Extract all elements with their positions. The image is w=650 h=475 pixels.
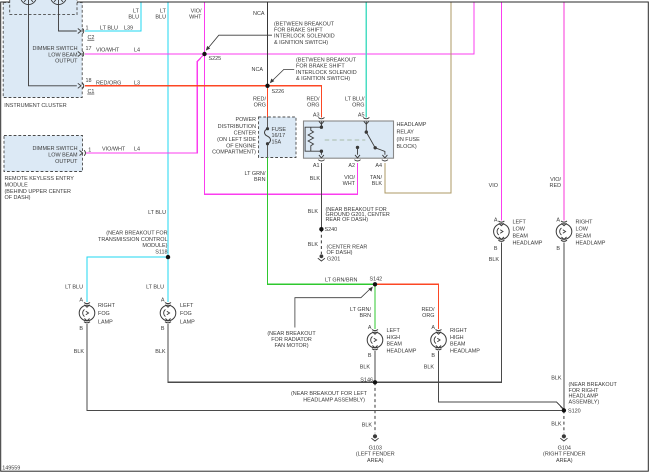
- relay switch A5 to A4: [365, 121, 385, 155]
- svg-text:FOR RADIATOR: FOR RADIATOR: [271, 337, 312, 343]
- svg-text:CENTER: CENTER: [234, 131, 256, 137]
- wire BLK right low beam to S120: [563, 243, 565, 411]
- label RED/ORG at relay A3: [307, 97, 320, 109]
- internal cluster wire from right lamp to pin 1: [59, 5, 77, 32]
- svg-text:L3: L3: [134, 81, 140, 87]
- label BLK below left low beam: [489, 257, 500, 263]
- annotation S146: [291, 391, 368, 403]
- svg-text:B: B: [556, 246, 560, 252]
- svg-text:ORG: ORG: [307, 103, 319, 109]
- svg-text:RED/: RED/: [422, 307, 435, 313]
- label BLK at A1: [310, 176, 321, 182]
- svg-text:VIO/: VIO/: [550, 177, 561, 183]
- svg-text:BLK: BLK: [424, 365, 435, 371]
- svg-text:ORG: ORG: [352, 103, 364, 109]
- svg-text:& IGNITION SWITCH): & IGNITION SWITCH): [274, 40, 328, 46]
- instrument cluster pin 1 and C2: [86, 26, 95, 42]
- svg-text:L39: L39: [124, 26, 133, 32]
- svg-text:HEADLAMP: HEADLAMP: [387, 348, 417, 354]
- label TAN/BLK at A4: [370, 175, 382, 187]
- svg-text:18: 18: [86, 78, 92, 84]
- svg-text:RELAY: RELAY: [397, 130, 415, 136]
- svg-text:BLU: BLU: [155, 15, 166, 21]
- svg-text:HIGH: HIGH: [450, 335, 464, 341]
- svg-text:LT: LT: [133, 9, 140, 15]
- svg-text:LT BLU/: LT BLU/: [345, 97, 365, 103]
- svg-text:BLK: BLK: [155, 349, 166, 355]
- svg-text:A5: A5: [358, 113, 365, 119]
- label VIO/WHT at A2: [343, 175, 356, 187]
- annotation for S226: [296, 57, 357, 82]
- label dimmer switch low beam output (cluster): [32, 46, 78, 65]
- svg-text:BLK: BLK: [360, 365, 371, 371]
- svg-text:FOR BRAKE SHIFT: FOR BRAKE SHIFT: [296, 64, 345, 70]
- svg-text:(ON LEFT SIDE: (ON LEFT SIDE: [217, 137, 256, 143]
- wire BLK right high beam to S120: [439, 351, 564, 410]
- label S226: [272, 89, 285, 95]
- label BLK below right high beam: [424, 365, 435, 371]
- wire NCA (black, top to S226): [267, 3, 269, 86]
- svg-text:OUTPUT: OUTPUT: [55, 159, 78, 165]
- svg-text:HEADLAMP: HEADLAMP: [397, 122, 427, 128]
- junction S146: [373, 380, 377, 384]
- svg-text:LEFT: LEFT: [180, 303, 194, 309]
- instrument cluster box: [3, 3, 82, 98]
- left fog lamp: [160, 303, 176, 323]
- svg-text:(LEFT FENDER: (LEFT FENDER: [356, 452, 395, 458]
- wire VIO/WHT top stub above S225: [204, 3, 206, 55]
- svg-text:REMOTE KEYLESS ENTRY: REMOTE KEYLESS ENTRY: [5, 176, 75, 182]
- svg-text:LEFT: LEFT: [387, 328, 401, 334]
- label S120: [568, 408, 581, 414]
- svg-text:A: A: [368, 325, 372, 331]
- svg-text:A2: A2: [348, 163, 355, 169]
- svg-text:(NEAR BREAKOUT FOR: (NEAR BREAKOUT FOR: [106, 231, 167, 237]
- svg-text:VIO/: VIO/: [191, 9, 202, 15]
- svg-text:S118: S118: [155, 249, 167, 255]
- label RIGHT HIGH BEAM HEADLAMP: [450, 328, 480, 354]
- svg-text:BEAM: BEAM: [387, 342, 403, 348]
- svg-text:LT BLU: LT BLU: [100, 26, 118, 32]
- svg-text:DISTRIBUTION: DISTRIBUTION: [218, 124, 256, 130]
- right high beam headlamp: [431, 330, 447, 350]
- svg-text:TRANSMISSION CONTROL: TRANSMISSION CONTROL: [98, 237, 168, 243]
- svg-text:BLK: BLK: [551, 375, 562, 381]
- headlamp relay U1 box: [304, 121, 394, 158]
- instrument cluster inner lamp box: [10, 0, 77, 15]
- svg-text:149559: 149559: [2, 466, 20, 472]
- right high beam pin B: [431, 353, 435, 359]
- label BLK right low beam: [551, 375, 562, 381]
- label S146: [360, 377, 373, 383]
- svg-text:(NEAR BREAKOUT: (NEAR BREAKOUT: [267, 331, 316, 337]
- svg-text:1: 1: [88, 148, 91, 154]
- svg-text:OUTPUT: OUTPUT: [55, 59, 78, 65]
- svg-text:WHT: WHT: [343, 181, 356, 187]
- label VIO at left low beam: [489, 183, 498, 189]
- svg-text:LOW BEAM: LOW BEAM: [48, 153, 78, 159]
- relay pin A2 arrow and cup: [354, 155, 360, 161]
- svg-text:LAMP: LAMP: [180, 319, 195, 325]
- label RIGHT FOG LAMP: [98, 303, 116, 325]
- svg-text:FOG: FOG: [180, 311, 192, 317]
- svg-text:L4: L4: [134, 147, 140, 153]
- svg-text:B: B: [431, 353, 435, 359]
- wire BLK right fog lamp to S120: [87, 324, 564, 410]
- svg-text:LT GRN/: LT GRN/: [245, 171, 266, 177]
- wire BLK dashed S120 to G104: [563, 410, 565, 433]
- svg-text:A: A: [431, 325, 435, 331]
- right fog pin A: [79, 297, 83, 303]
- svg-text:VIO/WHT: VIO/WHT: [96, 47, 120, 53]
- svg-text:VIO/WHT: VIO/WHT: [102, 147, 126, 153]
- wire VIO/WHT S225 to relay pin A2: [205, 54, 358, 194]
- svg-text:INTERLOCK SOLENOID: INTERLOCK SOLENOID: [274, 34, 335, 40]
- wire BLK ground bus left (fog, S146, low beam): [168, 243, 501, 383]
- svg-text:RED/ORG: RED/ORG: [96, 81, 121, 87]
- svg-text:B: B: [79, 326, 83, 332]
- label BLK above G104: [551, 421, 562, 427]
- svg-text:LT GRN/: LT GRN/: [350, 307, 371, 313]
- label G103 LEFT FENDER AREA: [356, 445, 395, 464]
- label NCA upper: [253, 11, 265, 17]
- svg-text:LOW: LOW: [576, 227, 589, 233]
- remote keyless pin 1: [88, 148, 91, 154]
- left low beam pin B: [494, 246, 498, 252]
- svg-text:15A: 15A: [272, 139, 282, 145]
- svg-text:S120: S120: [568, 408, 581, 414]
- right fog lamp: [79, 303, 95, 323]
- label BLK below left high beam: [360, 365, 371, 371]
- right low beam pin A: [556, 218, 560, 224]
- svg-text:HEADLAMP: HEADLAMP: [450, 348, 480, 354]
- relay coil between A3 and A1: [305, 121, 323, 155]
- label LT GRN/BRN at left high beam: [350, 307, 371, 319]
- wire BLK dashed S146 to G103: [374, 382, 376, 433]
- left high beam pin A: [368, 325, 372, 331]
- svg-text:NCA: NCA: [253, 11, 265, 17]
- label 149559: [2, 466, 20, 472]
- label POWER DISTRIBUTION CENTER: [212, 117, 256, 156]
- leader arrow to S226: [270, 69, 294, 83]
- svg-text:LT: LT: [160, 9, 167, 15]
- svg-text:RED: RED: [550, 183, 562, 189]
- label LT BLU column 1: [128, 9, 139, 21]
- svg-text:LAMP: LAMP: [98, 319, 113, 325]
- label LT BLU at left fog: [146, 285, 164, 291]
- label BLK below left fog: [155, 349, 166, 355]
- relay coil-switch dashed link: [325, 139, 366, 141]
- junction S120: [562, 408, 566, 412]
- wire gray inside fuse box: [267, 117, 269, 158]
- svg-text:BLK: BLK: [362, 422, 373, 428]
- svg-text:S146: S146: [360, 377, 373, 383]
- label RED/ORG below S226: [253, 97, 266, 109]
- svg-text:BLK: BLK: [372, 181, 383, 187]
- svg-text:G103: G103: [369, 445, 382, 451]
- left low beam headlamp: [494, 221, 510, 241]
- label RIGHT LOW BEAM HEADLAMP: [576, 219, 606, 246]
- svg-text:VIO/: VIO/: [344, 175, 355, 181]
- svg-text:(BETWEEN BREAKOUT: (BETWEEN BREAKOUT: [296, 57, 357, 63]
- svg-text:REAR OF DASH): REAR OF DASH): [326, 217, 369, 223]
- svg-text:HEADLAMP: HEADLAMP: [513, 241, 543, 247]
- label INSTRUMENT CLUSTER: [4, 103, 67, 109]
- svg-text:OF ENGINE: OF ENGINE: [226, 143, 256, 149]
- wire RED/ORG L3 (pin 18 to relay A3): [85, 86, 321, 118]
- leader arrow to S142: [295, 287, 373, 328]
- pin label A4: [375, 163, 382, 169]
- label LEFT FOG LAMP: [180, 303, 195, 325]
- svg-text:LOW: LOW: [513, 227, 526, 233]
- ground G103: [371, 434, 378, 441]
- svg-text:G201: G201: [327, 256, 340, 262]
- svg-text:A: A: [161, 297, 165, 303]
- pin label A2: [348, 163, 355, 169]
- right low beam pin B: [556, 246, 560, 252]
- svg-text:(NEAR BREAKOUT FOR LEFT: (NEAR BREAKOUT FOR LEFT: [291, 391, 368, 397]
- svg-text:17: 17: [86, 46, 92, 52]
- left high beam headlamp: [367, 330, 383, 350]
- wire LT BLU/ORG (top to relay A5): [365, 3, 367, 118]
- pin 17 arrow and connector cup: [78, 51, 84, 57]
- svg-text:S142: S142: [370, 276, 383, 282]
- wire TAN/BLK relay A4 to top: [385, 3, 451, 194]
- right fog pin B: [79, 326, 83, 332]
- svg-text:RIGHT: RIGHT: [576, 219, 594, 225]
- relay pin A1 arrow and cup: [318, 155, 324, 161]
- relay pin A3 arrow and cup: [318, 118, 324, 128]
- ground G201: [318, 254, 325, 261]
- svg-text:OF DASH): OF DASH): [327, 250, 353, 256]
- svg-text:LOW BEAM: LOW BEAM: [48, 52, 78, 58]
- label RED/ORG at right high beam: [422, 307, 435, 319]
- svg-text:BLK: BLK: [551, 421, 562, 427]
- junction S118: [166, 255, 170, 259]
- relay pin A5 arrow and cup: [363, 118, 369, 125]
- svg-text:BLOCK): BLOCK): [397, 144, 417, 150]
- svg-text:(BETWEEN BREAKOUT: (BETWEEN BREAKOUT: [274, 21, 335, 27]
- pin 1 arrow and connector cup: [78, 28, 84, 34]
- svg-text:A: A: [79, 297, 83, 303]
- wire VIO/WHT S225 to remote keyless module: [86, 54, 205, 153]
- annotation S118: [98, 231, 168, 256]
- label G104 RIGHT FENDER AREA: [543, 445, 586, 464]
- svg-text:BLK: BLK: [489, 257, 500, 263]
- svg-text:RIGHT: RIGHT: [450, 328, 468, 334]
- svg-text:AREA): AREA): [367, 458, 384, 464]
- svg-text:S226: S226: [272, 89, 285, 95]
- svg-text:S240: S240: [325, 227, 338, 233]
- wire BLK relay A1 to S240: [320, 163, 322, 229]
- relay pin A4 arrow and cup: [382, 155, 388, 161]
- label VIO/RED at right low beam: [550, 177, 562, 189]
- label LT BLU/ORG at relay A5: [345, 97, 365, 109]
- junction S240: [319, 227, 323, 231]
- svg-text:INSTRUMENT CLUSTER: INSTRUMENT CLUSTER: [4, 103, 67, 109]
- left fog pin B: [161, 326, 165, 332]
- indicator lamp left (instrument cluster): [21, 0, 37, 5]
- label LT GRN/BRN horizontal: [325, 277, 358, 283]
- label BLK below right fog: [74, 349, 85, 355]
- leader arrow to S225: [206, 35, 272, 50]
- svg-text:ORG: ORG: [422, 313, 434, 319]
- label HEADLAMP RELAY: [397, 122, 427, 150]
- annotation radiator fan: [267, 331, 316, 349]
- svg-text:FAN MOTOR): FAN MOTOR): [274, 343, 308, 349]
- wire LT GRN/BRN S142 to left high beam: [374, 284, 376, 329]
- wire RED/ORG S226 to fuse box: [267, 86, 269, 117]
- svg-text:A3: A3: [313, 113, 320, 119]
- svg-text:COMPARTMENT): COMPARTMENT): [212, 150, 256, 156]
- svg-text:L4: L4: [134, 47, 140, 53]
- svg-text:BLU: BLU: [128, 15, 139, 21]
- annotation S120: [569, 382, 618, 405]
- svg-text:(BEHIND UPPER CENTER: (BEHIND UPPER CENTER: [5, 189, 72, 195]
- svg-text:BRN: BRN: [254, 177, 266, 183]
- svg-text:WHT: WHT: [189, 15, 202, 21]
- ground G104: [560, 434, 567, 441]
- remote keyless entry module box: [4, 136, 83, 172]
- svg-text:FOG: FOG: [98, 311, 110, 317]
- annotation near S240: [326, 207, 390, 223]
- svg-text:BEAM: BEAM: [513, 234, 529, 240]
- instrument cluster pin 17: [86, 46, 92, 52]
- wire VIO/WHT L4 horizontal and riser: [85, 3, 474, 55]
- svg-text:HEADLAMP ASSEMBLY): HEADLAMP ASSEMBLY): [303, 398, 365, 404]
- label LT BLU at right fog: [65, 285, 83, 291]
- indicator lamp right (instrument cluster): [51, 0, 67, 5]
- svg-text:S225: S225: [209, 56, 222, 62]
- right high beam pin A: [431, 325, 435, 331]
- annotation near G201: [327, 245, 368, 256]
- label S142: [370, 276, 383, 282]
- svg-text:BLK: BLK: [74, 349, 85, 355]
- wire BLK dashed S240 to G201: [320, 229, 322, 254]
- svg-text:INTERLOCK SOLENOID: INTERLOCK SOLENOID: [296, 70, 357, 76]
- svg-text:A4: A4: [375, 163, 382, 169]
- svg-text:B: B: [161, 326, 165, 332]
- svg-text:LEFT: LEFT: [513, 219, 527, 225]
- label S225: [209, 56, 222, 62]
- internal cluster wire from left lamp to pin 18: [29, 5, 77, 86]
- svg-text:BLK: BLK: [308, 209, 319, 215]
- svg-text:MODULE): MODULE): [142, 243, 167, 249]
- label S240: [325, 227, 338, 233]
- pin 18 arrow and connector cup: [78, 83, 84, 89]
- svg-text:OF DASH): OF DASH): [5, 195, 31, 201]
- svg-text:1: 1: [86, 26, 89, 32]
- svg-text:FUSE: FUSE: [272, 127, 287, 133]
- svg-text:DIMMER SWITCH: DIMMER SWITCH: [32, 46, 77, 52]
- svg-text:RED/: RED/: [307, 97, 320, 103]
- svg-text:BLK: BLK: [308, 242, 319, 248]
- svg-text:BRN: BRN: [360, 313, 372, 319]
- svg-text:DIMMER SWITCH: DIMMER SWITCH: [32, 146, 77, 152]
- label VIO/WHT column: [189, 9, 202, 21]
- svg-text:A1: A1: [313, 163, 320, 169]
- label BLK below S240: [308, 242, 319, 248]
- svg-text:MODULE: MODULE: [5, 183, 29, 189]
- label RED/ORG L3 wire: [96, 81, 140, 87]
- svg-text:NCA: NCA: [252, 67, 264, 73]
- svg-text:16/17: 16/17: [272, 133, 286, 139]
- svg-text:A: A: [556, 218, 560, 224]
- instrument cluster pin 18 and C1: [86, 78, 95, 95]
- label LEFT LOW BEAM HEADLAMP: [513, 219, 543, 246]
- right low beam headlamp: [556, 221, 572, 241]
- relay pin A2 stub: [356, 146, 359, 155]
- wire BLK left high beam to S146: [374, 351, 376, 382]
- label FUSE 16/17 15A: [272, 127, 287, 145]
- label LT BLU mid: [148, 210, 166, 216]
- svg-text:AREA): AREA): [556, 458, 573, 464]
- label G201: [327, 256, 340, 262]
- svg-text:G104: G104: [558, 445, 571, 451]
- label REMOTE KEYLESS ENTRY MODULE: [5, 176, 75, 201]
- svg-text:BEAM: BEAM: [576, 234, 592, 240]
- svg-text:LT GRN/BRN: LT GRN/BRN: [325, 277, 358, 283]
- pin label A3: [313, 113, 320, 119]
- svg-text:LT BLU: LT BLU: [65, 285, 83, 291]
- label LT BLU L39 wire: [100, 26, 133, 32]
- svg-text:B: B: [368, 353, 372, 359]
- svg-text:VIO: VIO: [489, 183, 498, 189]
- left low beam pin A: [494, 218, 498, 224]
- svg-text:LT BLU: LT BLU: [146, 285, 164, 291]
- svg-text:POWER: POWER: [235, 117, 256, 123]
- wire LT BLU vertical to S118: [167, 3, 169, 258]
- wire LT BLU L39 (pin1 to top): [85, 3, 141, 32]
- label LT GRN/BRN below fuse: [245, 171, 266, 183]
- svg-text:HEADLAMP: HEADLAMP: [576, 241, 606, 247]
- wire VIO/RED (top to right low beam): [563, 3, 565, 221]
- pin label A1: [313, 163, 320, 169]
- svg-text:ORG: ORG: [254, 103, 266, 109]
- wire RED/ORG S142 to right high beam: [375, 284, 439, 329]
- label NCA lower: [252, 67, 264, 73]
- wire LT BLU S118 to left fog lamp: [167, 257, 169, 302]
- fuse 16/17 element: [265, 127, 271, 145]
- wire LT BLU S118 to right fog lamp: [87, 257, 168, 302]
- svg-text:(IN FUSE: (IN FUSE: [397, 137, 421, 143]
- svg-text:RED/: RED/: [253, 97, 266, 103]
- fuse 16/17 box (power distribution center): [259, 117, 297, 158]
- junction S225: [202, 52, 206, 56]
- svg-text:BEAM: BEAM: [450, 342, 466, 348]
- svg-text:(RIGHT FENDER: (RIGHT FENDER: [543, 452, 586, 458]
- label LEFT HIGH BEAM HEADLAMP: [387, 328, 417, 354]
- svg-text:B: B: [494, 246, 498, 252]
- svg-text:& IGNITION SWITCH): & IGNITION SWITCH): [296, 76, 350, 82]
- svg-text:HIGH: HIGH: [387, 335, 401, 341]
- label LT BLU column 2: [155, 9, 166, 21]
- label BLK above G103: [362, 422, 373, 428]
- left high beam pin B: [368, 353, 372, 359]
- svg-text:TAN/: TAN/: [370, 175, 382, 181]
- svg-text:ASSEMBLY): ASSEMBLY): [569, 400, 600, 406]
- left fog pin A: [161, 297, 165, 303]
- label dimmer switch low beam output (remote keyless): [32, 146, 78, 165]
- svg-text:A: A: [494, 218, 498, 224]
- svg-text:FOR BRAKE SHIFT: FOR BRAKE SHIFT: [274, 28, 323, 34]
- label VIO/WHT L4 (remote keyless wire): [102, 147, 140, 153]
- wire LT GRN/BRN fuse box to S142: [268, 158, 376, 285]
- remote keyless pin 1 arrow and connector cup: [80, 150, 86, 156]
- svg-text:BLK: BLK: [310, 176, 321, 182]
- label BLK above S240: [308, 209, 319, 215]
- label VIO/WHT L4 wire: [96, 47, 140, 53]
